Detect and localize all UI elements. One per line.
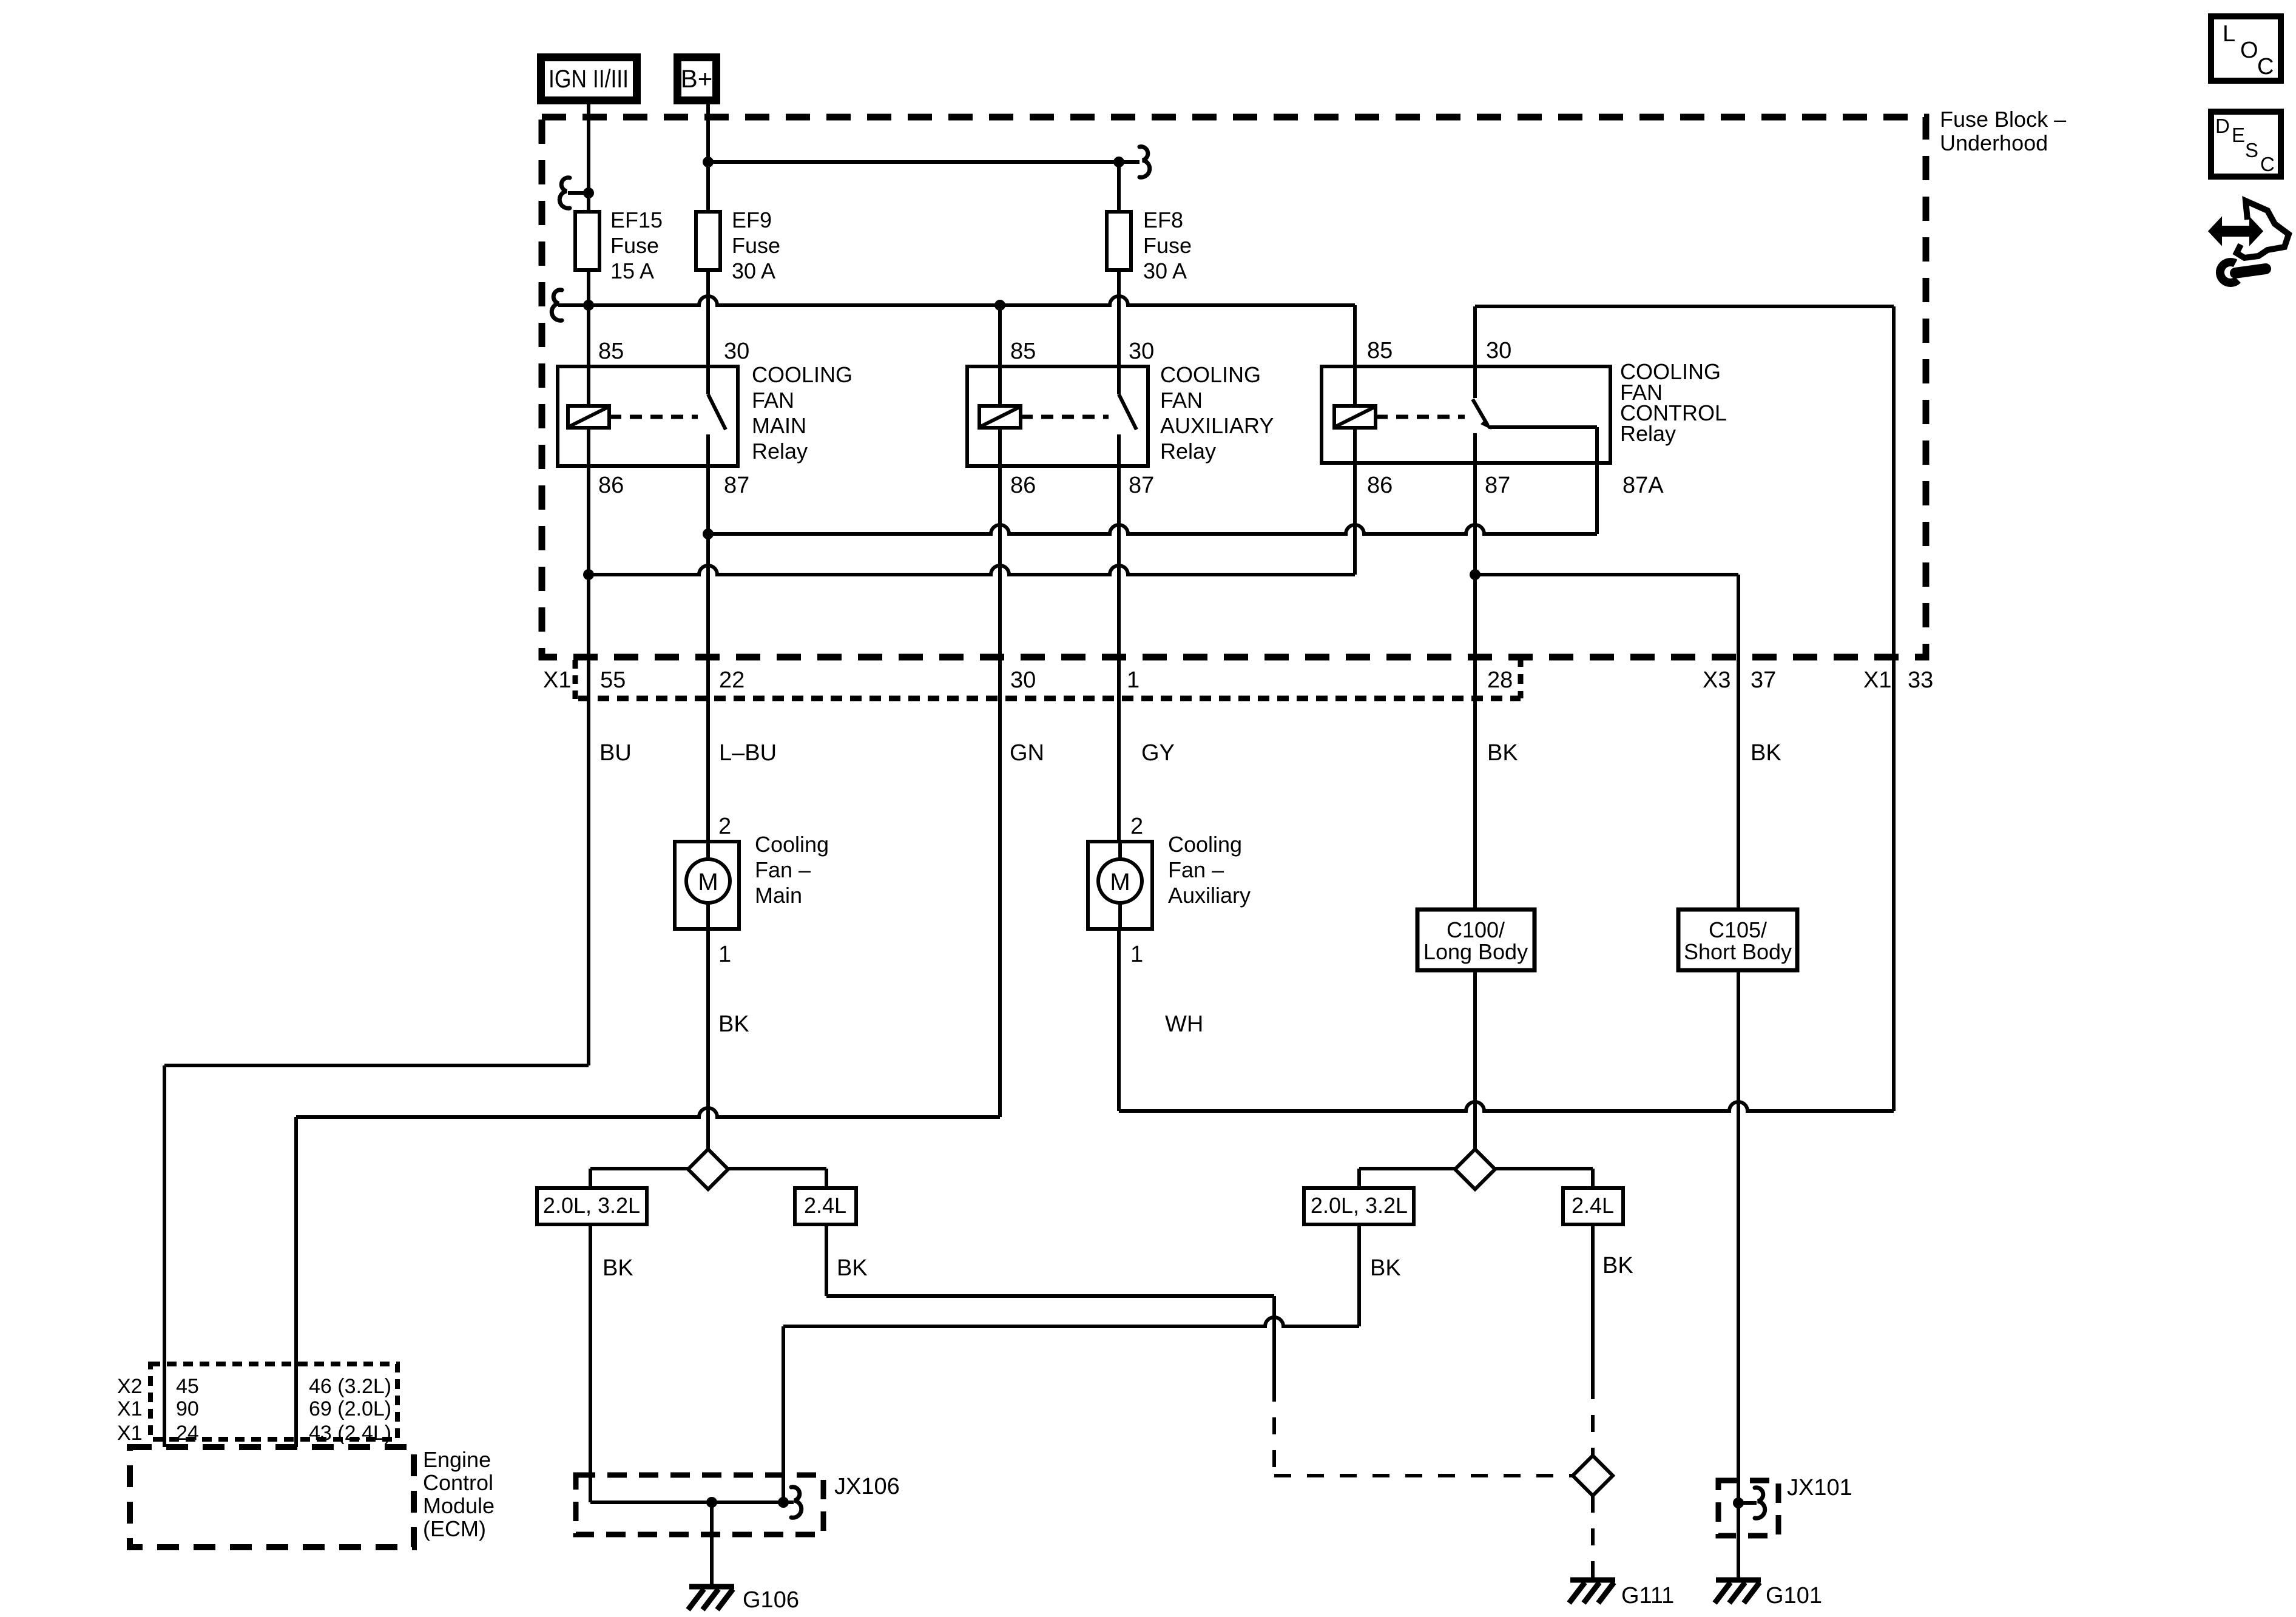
svg-text:2.0L, 3.2L: 2.0L, 3.2L — [1311, 1193, 1408, 1218]
svg-text:X1: X1 — [543, 667, 571, 693]
svg-text:Fuse: Fuse — [610, 233, 659, 258]
svg-text:15 A: 15 A — [610, 258, 654, 283]
svg-text:L–BU: L–BU — [719, 740, 777, 766]
svg-text:C: C — [2260, 153, 2275, 175]
svg-text:Relay: Relay — [752, 439, 808, 464]
svg-text:85: 85 — [1010, 339, 1036, 364]
svg-text:EF9: EF9 — [732, 208, 772, 232]
svg-text:X1: X1 — [1863, 667, 1891, 693]
svg-text:Fan –: Fan – — [755, 857, 811, 882]
svg-text:87: 87 — [1129, 473, 1154, 498]
svg-text:87: 87 — [1485, 473, 1510, 498]
svg-text:Fuse: Fuse — [732, 233, 780, 258]
svg-text:1: 1 — [718, 942, 731, 967]
svg-text:2.0L, 3.2L: 2.0L, 3.2L — [543, 1193, 640, 1218]
svg-text:S: S — [2245, 139, 2258, 161]
svg-text:WH: WH — [1165, 1011, 1203, 1037]
svg-text:Underhood: Underhood — [1940, 130, 2048, 155]
svg-text:BU: BU — [599, 740, 632, 766]
svg-text:BK: BK — [1487, 740, 1518, 766]
svg-text:86: 86 — [1367, 473, 1393, 498]
svg-text:90: 90 — [176, 1397, 199, 1420]
svg-text:2: 2 — [718, 814, 731, 839]
svg-text:1: 1 — [1130, 942, 1143, 967]
svg-text:2: 2 — [1130, 814, 1143, 839]
svg-text:85: 85 — [1367, 338, 1393, 363]
svg-text:45: 45 — [176, 1375, 199, 1398]
svg-text:Cooling: Cooling — [1168, 832, 1242, 857]
svg-text:30 A: 30 A — [732, 258, 775, 283]
svg-text:FAN: FAN — [1160, 388, 1203, 413]
svg-text:C105/: C105/ — [1709, 917, 1767, 942]
svg-text:L: L — [2223, 21, 2235, 47]
svg-text:GY: GY — [1141, 740, 1175, 766]
svg-text:87A: 87A — [1622, 473, 1664, 498]
svg-text:Engine: Engine — [423, 1447, 491, 1472]
svg-text:30: 30 — [1486, 338, 1511, 363]
svg-text:G111: G111 — [1621, 1583, 1674, 1609]
svg-text:Fuse: Fuse — [1143, 233, 1192, 258]
svg-text:86: 86 — [598, 473, 624, 498]
svg-text:GN: GN — [1010, 740, 1044, 766]
svg-text:24: 24 — [176, 1422, 199, 1445]
svg-text:46 (3.2L): 46 (3.2L) — [309, 1375, 391, 1398]
svg-text:G101: G101 — [1766, 1583, 1822, 1609]
svg-text:JX101: JX101 — [1787, 1475, 1852, 1501]
svg-text:O: O — [2240, 38, 2258, 63]
svg-text:X2: X2 — [117, 1375, 143, 1398]
svg-text:X1: X1 — [117, 1422, 143, 1445]
svg-text:FAN: FAN — [752, 388, 794, 413]
svg-text:BK: BK — [1370, 1255, 1401, 1281]
svg-text:Long Body: Long Body — [1423, 939, 1528, 964]
svg-text:Relay: Relay — [1620, 421, 1676, 446]
svg-text:JX106: JX106 — [834, 1474, 900, 1499]
svg-text:AUXILIARY: AUXILIARY — [1160, 413, 1274, 438]
svg-text:86: 86 — [1010, 473, 1036, 498]
svg-text:30: 30 — [724, 339, 749, 364]
svg-text:Module: Module — [423, 1493, 495, 1518]
svg-text:Auxiliary: Auxiliary — [1168, 883, 1251, 908]
svg-text:69 (2.0L): 69 (2.0L) — [309, 1397, 391, 1420]
svg-text:Short Body: Short Body — [1684, 939, 1792, 964]
svg-text:Control: Control — [423, 1470, 493, 1495]
svg-text:BK: BK — [603, 1255, 633, 1281]
svg-text:43 (2.4L): 43 (2.4L) — [309, 1422, 391, 1445]
svg-text:BK: BK — [1751, 740, 1781, 766]
svg-text:55: 55 — [600, 667, 626, 693]
svg-text:Cooling: Cooling — [755, 832, 829, 857]
svg-text:Main: Main — [755, 883, 802, 908]
svg-text:(ECM): (ECM) — [423, 1516, 486, 1541]
svg-text:COOLING: COOLING — [752, 362, 853, 387]
svg-text:Fan –: Fan – — [1168, 857, 1224, 882]
svg-text:33: 33 — [1908, 667, 1933, 693]
svg-text:E: E — [2232, 124, 2245, 146]
svg-text:BK: BK — [718, 1011, 749, 1037]
svg-text:22: 22 — [719, 667, 745, 693]
svg-text:EF15: EF15 — [610, 208, 663, 232]
svg-text:2.4L: 2.4L — [1572, 1193, 1614, 1218]
svg-text:BK: BK — [837, 1255, 868, 1281]
svg-text:G106: G106 — [743, 1587, 799, 1613]
svg-text:1: 1 — [1127, 667, 1140, 693]
svg-text:X3: X3 — [1703, 667, 1730, 693]
svg-text:28: 28 — [1487, 667, 1513, 693]
svg-text:MAIN: MAIN — [752, 413, 806, 438]
svg-text:B+: B+ — [681, 64, 713, 93]
svg-text:30 A: 30 A — [1143, 258, 1187, 283]
svg-text:BK: BK — [1602, 1253, 1633, 1278]
svg-text:37: 37 — [1751, 667, 1776, 693]
svg-text:85: 85 — [598, 339, 624, 364]
svg-text:EF8: EF8 — [1143, 208, 1183, 232]
svg-text:M: M — [698, 869, 718, 896]
svg-text:D: D — [2215, 115, 2230, 137]
svg-text:C: C — [2257, 54, 2274, 79]
svg-text:30: 30 — [1129, 339, 1154, 364]
svg-text:IGN II/III: IGN II/III — [549, 64, 629, 93]
svg-text:C100/: C100/ — [1447, 917, 1505, 942]
svg-text:30: 30 — [1010, 667, 1036, 693]
svg-text:87: 87 — [724, 473, 749, 498]
svg-text:Relay: Relay — [1160, 439, 1216, 464]
svg-text:2.4L: 2.4L — [804, 1193, 846, 1218]
svg-text:M: M — [1110, 869, 1130, 896]
svg-text:Fuse Block –: Fuse Block – — [1940, 107, 2066, 132]
svg-text:X1: X1 — [117, 1397, 143, 1420]
svg-text:COOLING: COOLING — [1160, 362, 1261, 387]
